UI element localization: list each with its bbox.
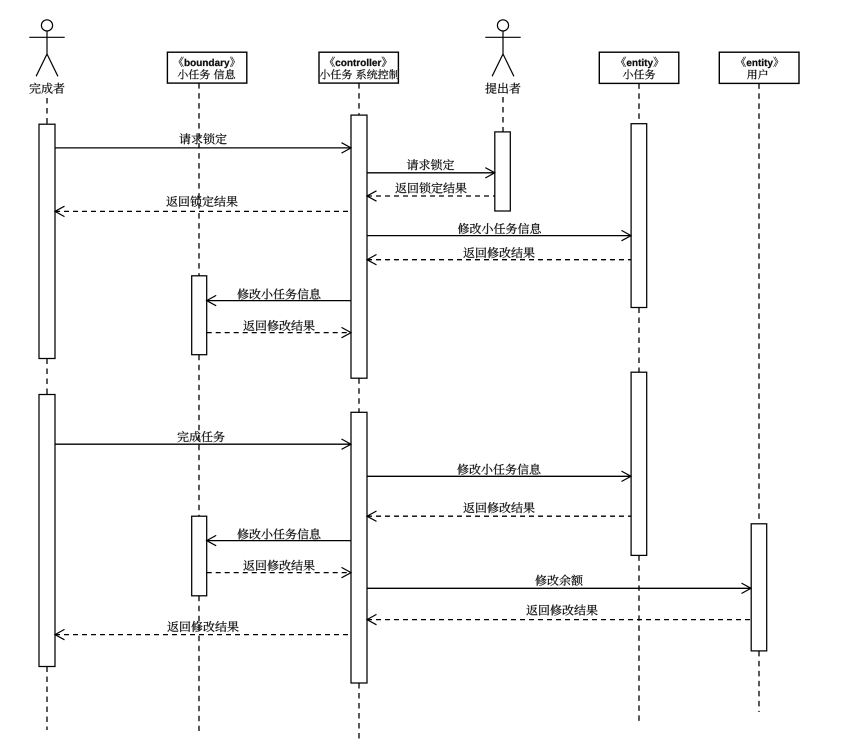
activation bar 完成者 activation 2: [39, 395, 55, 667]
message 12 修改小任务信息 系统控制→小任务信息: [207, 528, 351, 545]
message 10 修改小任务信息 系统控制→小任务: [367, 464, 631, 482]
activation bar 系统控制 activation 2: [351, 412, 367, 683]
message 3 返回锁定结果 提出者→系统控制: [367, 182, 495, 201]
lifeline 小任务信息 (dashed): [198, 83, 200, 731]
message 13 返回修改结果 小任务信息→系统控制: [207, 560, 351, 578]
message 5 修改小任务信息 系统控制→小任务: [367, 223, 631, 241]
message 7 修改小任务信息 系统控制→小任务信息: [207, 288, 351, 305]
activation bar 小任务 activation 1: [631, 124, 647, 308]
activation bar 系统控制 activation 1: [351, 115, 367, 378]
actor 提出者 (stick figure): [485, 20, 520, 77]
object box 《entity》用户: [719, 52, 799, 83]
message 8 返回修改结果 小任务信息→系统控制: [207, 320, 351, 338]
lifeline 小任务系统控制 (dashed): [358, 83, 360, 739]
activation bar 小任务信息 activation 1: [192, 276, 207, 355]
lifeline 用户 (dashed): [758, 83, 760, 712]
lifeline 提出者 (dashed): [502, 97, 504, 132]
lifeline 完成者 (dashed): [46, 98, 48, 730]
message 9 完成任务 完成者→系统控制: [55, 431, 351, 449]
activation bar 提出者 activation: [495, 132, 511, 211]
message 1 请求锁定 完成者→系统控制: [55, 133, 351, 153]
message 16 返回修改结果 系统控制→完成者: [55, 621, 351, 640]
actor 完成者 (stick figure): [29, 20, 64, 77]
message 11 返回修改结果 小任务→系统控制: [367, 502, 631, 521]
activation bar 用户 activation: [751, 524, 767, 651]
label 提出者: [485, 83, 520, 94]
message 6 返回修改结果 小任务→系统控制: [367, 247, 631, 265]
object box 《boundary》小任务 信息: [167, 52, 246, 83]
activation bar 小任务信息 activation 2: [192, 516, 207, 596]
activation bar 小任务 activation 2: [631, 372, 647, 555]
object box 《controller》小任务 系统控制: [319, 52, 399, 83]
activation bar 完成者 activation 1: [39, 124, 55, 358]
message 2 请求锁定 系统控制→提出者: [367, 159, 495, 178]
message 15 返回修改结果 用户→系统控制: [367, 605, 751, 625]
message 4 返回锁定结果 系统控制→完成者: [55, 196, 351, 217]
lifeline 小任务 (dashed): [638, 83, 640, 724]
label 完成者: [30, 83, 65, 94]
message 14 修改余额 系统控制→用户: [367, 575, 751, 594]
object box 《entity》小任务: [599, 52, 679, 83]
